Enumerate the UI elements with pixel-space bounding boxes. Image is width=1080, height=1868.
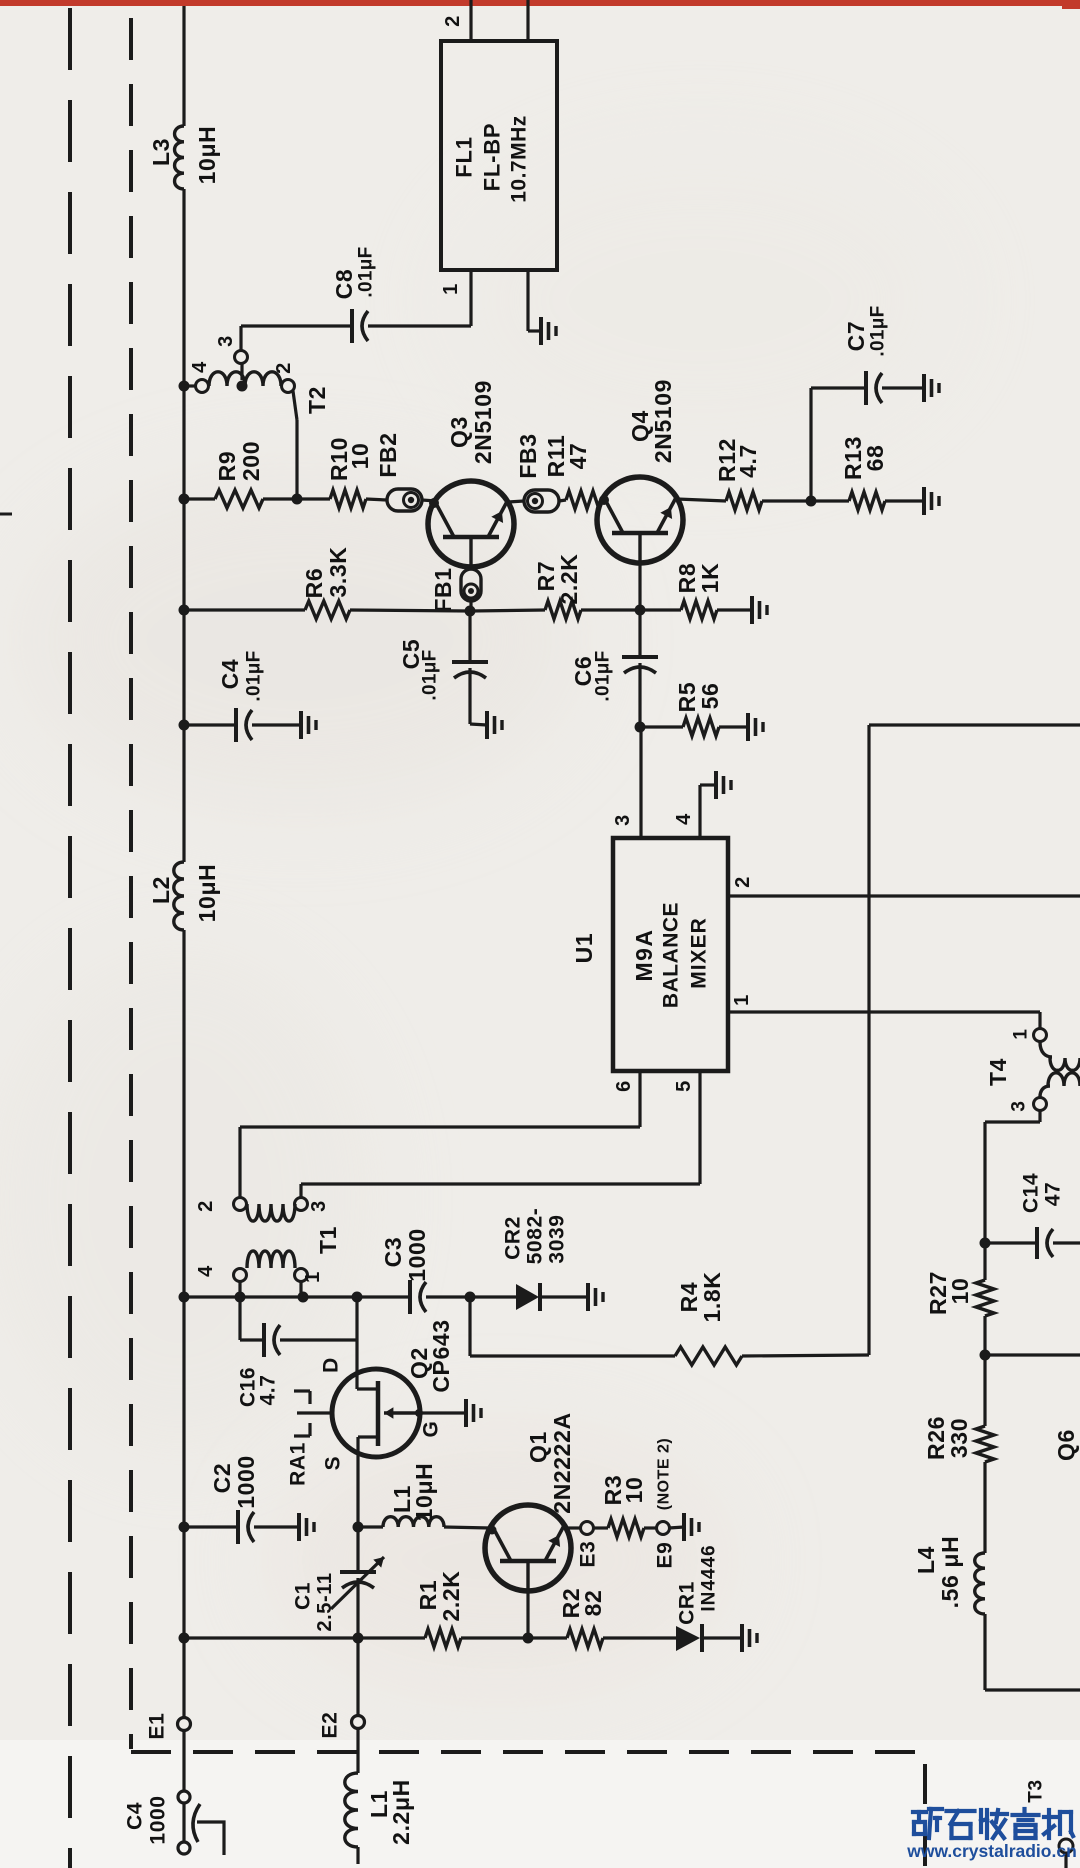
svg-text:T4: T4 [985,1058,1011,1086]
svg-text:.01μF: .01μF [868,305,889,356]
svg-text:1000: 1000 [233,1455,259,1509]
svg-text:3.3K: 3.3K [325,547,351,598]
svg-text:.01μF: .01μF [593,650,614,701]
svg-text:4: 4 [195,1265,217,1277]
svg-text:3: 3 [612,814,634,826]
svg-text:2: 2 [732,876,754,888]
svg-text:C7: C7 [843,321,869,352]
svg-text:BALANCE: BALANCE [660,902,683,1008]
svg-text:2.5-11: 2.5-11 [314,1572,336,1631]
svg-text:3039: 3039 [546,1214,569,1263]
svg-text:10: 10 [347,443,373,470]
svg-text:330: 330 [946,1418,972,1458]
svg-text:82: 82 [580,1590,606,1617]
svg-text:RA1: RA1 [287,1442,310,1486]
svg-text:E9: E9 [654,1542,677,1569]
svg-text:E1: E1 [146,1713,169,1740]
svg-text:E2: E2 [319,1712,342,1739]
svg-text:C14: C14 [1020,1173,1043,1213]
svg-text:(NOTE 2): (NOTE 2) [656,1438,673,1510]
svg-text:4.7: 4.7 [735,444,761,478]
svg-text:10μH: 10μH [194,864,220,923]
svg-text:FL1: FL1 [452,136,477,178]
svg-text:Q6: Q6 [1053,1429,1079,1461]
svg-text:5082-: 5082- [524,1208,547,1265]
svg-text:L2: L2 [148,876,174,904]
svg-text:47: 47 [1042,1182,1065,1207]
svg-text:C4: C4 [124,1802,147,1830]
svg-text:Q1: Q1 [525,1431,551,1463]
svg-text:1.8K: 1.8K [699,1272,725,1323]
svg-text:3: 3 [1009,1100,1030,1111]
svg-text:.01μF: .01μF [244,650,265,701]
svg-text:C8: C8 [331,269,357,300]
svg-text:1K: 1K [697,563,723,594]
svg-text:4.7: 4.7 [257,1375,280,1406]
svg-text:10: 10 [621,1477,647,1504]
svg-text:3: 3 [308,1200,330,1212]
svg-text:10: 10 [947,1278,973,1305]
svg-text:T2: T2 [304,386,330,414]
svg-text:R6: R6 [301,568,327,599]
svg-text:MIXER: MIXER [688,917,711,989]
svg-text:CP643: CP643 [428,1319,454,1392]
svg-text:2.2K: 2.2K [438,1571,464,1622]
svg-text:E3: E3 [577,1541,600,1568]
svg-text:1: 1 [440,283,462,295]
svg-text:.01μF: .01μF [356,246,377,297]
svg-text:1: 1 [731,994,753,1006]
svg-text:4: 4 [189,361,211,373]
svg-text:C4: C4 [217,659,243,690]
svg-text:2: 2 [442,15,464,27]
svg-text:2N5109: 2N5109 [470,380,496,464]
svg-text:R9: R9 [214,451,240,482]
svg-text:S: S [322,1456,345,1471]
svg-text:1: 1 [1011,1028,1032,1039]
svg-text:FB3: FB3 [515,433,541,478]
svg-text:CR1: CR1 [676,1581,699,1625]
svg-text:56: 56 [697,683,723,710]
svg-text:68: 68 [862,445,888,472]
svg-text:L4: L4 [913,1546,939,1574]
svg-text:200: 200 [238,441,264,481]
svg-text:FB1: FB1 [430,567,456,612]
svg-text:IN4446: IN4446 [699,1544,720,1611]
svg-text:1: 1 [302,1271,324,1283]
svg-text:2.2μH: 2.2μH [388,1779,414,1845]
svg-text:.56 μH: .56 μH [937,1536,963,1609]
svg-text:3: 3 [215,335,237,347]
svg-text:FB2: FB2 [375,432,401,477]
svg-text:2N5109: 2N5109 [650,379,676,463]
svg-text:2: 2 [195,1200,217,1212]
svg-text:C2: C2 [209,1463,235,1494]
svg-text:1000: 1000 [404,1228,430,1282]
svg-text:www.crystalradio.cn: www.crystalradio.cn [906,1841,1077,1861]
svg-text:T1: T1 [315,1226,341,1254]
svg-text:5: 5 [673,1080,695,1092]
svg-text:4: 4 [673,813,695,825]
svg-text:1000: 1000 [147,1795,170,1844]
svg-text:2.2K: 2.2K [556,554,582,605]
svg-text:Q3: Q3 [446,416,472,448]
svg-text:10μH: 10μH [411,1463,437,1522]
svg-text:M9A: M9A [631,928,657,981]
svg-text:C1: C1 [292,1582,315,1610]
svg-text:FL-BP: FL-BP [480,123,505,192]
svg-text:2N2222A: 2N2222A [549,1412,575,1513]
svg-text:G: G [420,1421,443,1438]
svg-text:47: 47 [565,443,591,470]
svg-text:D: D [320,1357,343,1373]
svg-text:10μH: 10μH [194,126,220,185]
svg-text:CR2: CR2 [502,1216,525,1260]
svg-text:2: 2 [273,362,295,374]
svg-text:T3: T3 [1026,1779,1047,1802]
svg-text:6: 6 [613,1080,635,1092]
svg-text:U1: U1 [571,933,597,964]
svg-text:10.7MHz: 10.7MHz [508,115,531,203]
svg-text:C3: C3 [380,1237,406,1268]
svg-text:.01μF: .01μF [420,649,441,700]
svg-text:L3: L3 [148,138,174,166]
